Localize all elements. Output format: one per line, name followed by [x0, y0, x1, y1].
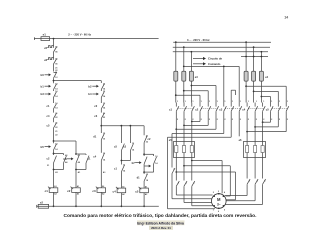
contactor c5 main contacts — [270, 103, 272, 107]
e5 output terminals to motor left — [175, 158, 177, 181]
control supply bus L - 2~ 220V 60Hz — [34, 38, 158, 40]
fuse e4 phase 3 — [259, 71, 263, 81]
svg-text:c2: c2 — [195, 108, 198, 112]
svg-text:Circuito de: Circuito de — [208, 57, 223, 61]
branch rail1 to rail c2-coil — [53, 140, 55, 142]
wire branch rail2 to rails 4 and 5 — [100, 125, 102, 127]
auxiliary contact c1 13-14 rail 1 — [54, 104, 57, 109]
wire c4 outputs into overload relay e6 — [246, 118, 248, 142]
pushbutton b3 on rail 1 — [45, 93, 49, 95]
tap L1 to fuse group e3 — [175, 41, 177, 43]
author highlight bar — [137, 220, 185, 225]
crossover wires c5 outputs to c4 columns — [270, 118, 272, 123]
motor M 3~ — [212, 194, 227, 209]
nested wires from e5 outputs around motor right — [192, 160, 222, 162]
svg-text:3 ~ - 220 V - 60 Hz: 3 ~ - 220 V - 60 Hz — [187, 38, 210, 42]
svg-text:14: 14 — [284, 16, 288, 20]
svg-text:c3: c3 — [219, 108, 222, 112]
svg-text:c5: c5 — [266, 108, 269, 112]
auxiliary contact c2 13-14 rail 2 — [101, 104, 104, 109]
contactor c2 main contacts — [199, 103, 201, 107]
wire c1 outputs into overload relay e5 — [175, 118, 177, 142]
revision highlight bar — [149, 226, 173, 230]
aux contact on c3 rail lower — [101, 153, 104, 160]
wire hook to contactor c3 middle — [230, 90, 232, 102]
svg-text:2024 A Rev. 01: 2024 A Rev. 01 — [151, 226, 171, 230]
contactor c1 main contacts — [175, 103, 177, 107]
pushbutton b5 and parallel pair on rail 5 — [143, 153, 145, 155]
svg-text:Engº Edilson Alfredo da Silva: Engº Edilson Alfredo da Silva — [137, 221, 184, 225]
svg-text:M: M — [217, 197, 221, 202]
tap L2 to fuse group e4 — [253, 46, 255, 48]
svg-text:A2: A2 — [145, 193, 147, 196]
svg-text:2 ~ - 220 V - 60 Hz: 2 ~ - 220 V - 60 Hz — [68, 32, 91, 36]
svg-text:A2: A2 — [122, 193, 124, 196]
contactor coil c2 — [72, 188, 81, 193]
svg-text:e1: e1 — [43, 33, 47, 37]
aux contact c1 on rail 4 — [121, 165, 124, 172]
wire branch to contactor c2 phase 3 — [191, 85, 193, 87]
svg-text:c2: c2 — [67, 189, 71, 193]
fuse e4 phase 1 — [244, 71, 248, 81]
svg-text:c1: c1 — [169, 108, 172, 112]
svg-text:A1: A1 — [145, 185, 147, 188]
tap L1 to fuse group e4 — [245, 41, 247, 43]
svg-text:b7: b7 — [132, 161, 136, 165]
pushbutton b0 (NC stop) — [45, 74, 49, 76]
wire branch to contactor c2 phase 1 — [175, 94, 177, 96]
svg-text:A2: A2 — [77, 193, 79, 196]
svg-text:b4: b4 — [88, 92, 92, 96]
fuse e1 — [41, 37, 50, 41]
contactor coil c3 — [97, 188, 106, 193]
wire c3 output phase2 long route to motor bottom — [230, 118, 232, 138]
fuse e3 phase 3 — [189, 71, 193, 81]
overload contact e6 (95-96) — [47, 58, 53, 60]
wire branch to contactor c5 phase 2 — [253, 91, 255, 93]
fuse e2 on return bus — [38, 204, 48, 208]
arrow to control circuit - Circuito de — [193, 58, 203, 60]
parallel contact pair rails 4 (c4 coil feed) — [120, 126, 122, 143]
terminal contact on far-left wire — [172, 168, 175, 173]
parallel aux contact pair around c1 rail — [53, 153, 55, 155]
auxiliary contact c5 21-22 rail 1 — [54, 123, 57, 128]
power bus L3 — [173, 51, 268, 53]
svg-text:A1: A1 — [102, 185, 104, 188]
fuse e3 phase 2 — [182, 71, 186, 81]
contact c2 21-22 on rail 5 — [143, 126, 145, 136]
node A junction on bus — [53, 38, 55, 40]
auxiliary contact d1 rail 2 — [101, 134, 104, 140]
svg-text:b0: b0 — [41, 73, 45, 77]
svg-text:A2: A2 — [54, 193, 56, 196]
pushbutton b4 on rail 2 — [92, 93, 96, 95]
svg-text:c4: c4 — [242, 108, 245, 112]
fuse e4 phase 2 — [252, 71, 256, 81]
contactor coil c1 — [49, 188, 58, 193]
wire column c1 branch (main rail) — [53, 39, 55, 45]
auxiliary contact c4 21-22 rail 1 — [54, 113, 57, 118]
power bus L2 — [173, 46, 270, 48]
wire branch to second rail — [53, 80, 55, 82]
contactor coil c4 — [117, 188, 126, 193]
svg-text:b1: b1 — [41, 84, 45, 88]
wire branch to contactor c5 phase 1 — [245, 85, 247, 87]
aux contact pair on c2 rail — [75, 153, 77, 155]
aux contact d1 on rail 5 — [144, 175, 147, 181]
svg-text:A1: A1 — [54, 185, 56, 188]
contactor c4 main contacts — [246, 103, 248, 107]
svg-text:b2: b2 — [88, 84, 92, 88]
overload contact e5 (95-96) — [47, 46, 53, 48]
power bus jumper segment right — [241, 56, 268, 58]
auxiliary contact c3 21-22 rail 2 — [101, 113, 104, 118]
contactor c3 main contacts — [223, 103, 225, 107]
pushbutton b1 on rail 1 — [45, 85, 49, 87]
e6 output terminals to motor right — [246, 158, 248, 179]
svg-text:3~: 3~ — [217, 203, 221, 207]
tap L2 to fuse group e3 — [183, 46, 185, 48]
svg-text:Comando: Comando — [208, 62, 221, 66]
wire c3 output phase1 long route to motor — [223, 118, 225, 134]
contactor coil c5 — [140, 188, 149, 193]
fuse e3 phase 1 — [174, 71, 178, 81]
overload relay e5 — [174, 142, 195, 158]
svg-text:c4: c4 — [113, 189, 117, 193]
crossover wires c2 outputs to c1 columns — [199, 118, 201, 122]
wire branch to contactor c5 phase 3 — [261, 96, 263, 98]
wire c3 output phase3 short route — [238, 118, 240, 137]
wire branch L2 tap to contactor c3 — [183, 66, 185, 68]
svg-text:A1: A1 — [122, 185, 124, 188]
wire branch to contactor c2 phase 2 — [183, 90, 185, 92]
control return bus N — [37, 205, 159, 207]
svg-text:b5: b5 — [41, 145, 45, 149]
tap L3 to fuse group e3 — [191, 51, 193, 53]
svg-text:c1: c1 — [45, 189, 49, 193]
svg-text:b6: b6 — [64, 157, 68, 161]
tap L3 to fuse group e4 — [261, 51, 263, 53]
svg-text:c5: c5 — [135, 189, 139, 193]
svg-text:c3: c3 — [92, 189, 96, 193]
arrow to control circuit - Comando — [193, 63, 203, 65]
wire fuse e3 outputs down to contactor c1 — [175, 81, 177, 102]
svg-text:Comando para motor elétrico tr: Comando para motor elétrico trifásico, t… — [64, 213, 258, 219]
pushbutton b5 rail 1 — [45, 146, 49, 148]
svg-text:b3: b3 — [41, 92, 45, 96]
overload relay e6 — [244, 142, 266, 158]
wire fuse e4 outputs to contactor c4 — [245, 81, 247, 102]
motor terminals — [213, 195, 215, 197]
pushbutton b2 on rail 2 — [92, 85, 96, 87]
svg-text:A1: A1 — [77, 185, 79, 188]
svg-text:A2: A2 — [102, 193, 104, 196]
power bus L1 — [173, 41, 271, 43]
